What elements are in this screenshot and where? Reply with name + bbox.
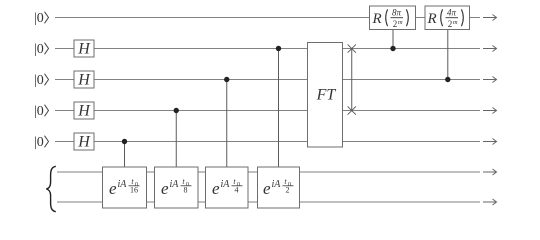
ket |0> q3	[34, 73, 49, 88]
svg-text:H: H	[77, 72, 91, 89]
control wire U2 to q4	[175, 111, 177, 169]
wire b2	[57, 201, 480, 203]
svg-text:|0: |0	[34, 135, 44, 150]
arrows	[483, 15, 497, 206]
svg-text:H: H	[77, 103, 91, 120]
U1 box	[103, 167, 147, 208]
brace	[46, 166, 56, 211]
svg-text:iA: iA	[221, 179, 231, 190]
arrow q3	[483, 79, 496, 81]
svg-text:e: e	[161, 179, 169, 198]
control dot R1	[390, 46, 395, 51]
U4 box	[258, 167, 300, 208]
H gate box q4	[74, 102, 94, 119]
R2 box	[425, 6, 470, 30]
svg-text:FT: FT	[316, 87, 337, 104]
svg-text:8: 8	[184, 186, 188, 195]
svg-text:2: 2	[286, 186, 290, 195]
arrow b1	[483, 171, 496, 173]
swap cross q4	[348, 106, 356, 114]
ket |0> q1	[34, 11, 49, 26]
svg-text:iA: iA	[272, 179, 282, 190]
wire q4	[55, 110, 480, 112]
U2 box	[155, 167, 199, 208]
label U1 e^iAt0/16	[109, 177, 140, 198]
wire q5	[55, 141, 480, 143]
ket |0> q4	[34, 104, 49, 119]
control dot q2	[276, 46, 281, 51]
ket |0> q5	[34, 135, 49, 150]
H gate box q3	[74, 71, 94, 88]
arrow q1	[483, 17, 496, 19]
svg-text:4: 4	[235, 186, 239, 195]
control dot R2	[445, 77, 450, 82]
svg-text:m: m	[453, 19, 458, 26]
svg-text:e: e	[109, 179, 117, 198]
svg-text:H: H	[77, 134, 91, 151]
svg-text:iA: iA	[170, 179, 180, 190]
control wire R1 to q2	[392, 29, 394, 49]
svg-text:2: 2	[393, 19, 398, 29]
svg-text:2: 2	[448, 19, 453, 29]
control wire U4 to q2	[278, 49, 280, 169]
svg-text:R: R	[427, 11, 437, 27]
svg-text:|0: |0	[34, 42, 44, 57]
arrow q4	[483, 110, 496, 112]
wire q1	[55, 17, 480, 19]
label U3 e^iAt0/4	[212, 177, 243, 198]
svg-text:e: e	[212, 179, 220, 198]
H gate box q2	[74, 40, 94, 57]
svg-text:|0: |0	[34, 11, 44, 26]
FT box	[308, 43, 343, 148]
svg-text:iA: iA	[118, 179, 128, 190]
svg-text:|0: |0	[34, 73, 44, 88]
control dot q3	[224, 77, 229, 82]
R1 box	[370, 6, 416, 30]
svg-text:m: m	[398, 19, 403, 26]
control wire U3 to q3	[226, 80, 228, 169]
control wire R2 to q3	[447, 29, 449, 80]
wire q3	[55, 79, 480, 81]
swap wire	[351, 49, 353, 111]
U3 box	[206, 167, 249, 208]
swap cross q2	[348, 44, 356, 52]
svg-text:e: e	[263, 179, 271, 198]
arrow q5	[483, 141, 496, 143]
svg-text:R: R	[372, 11, 382, 27]
svg-text:16: 16	[130, 186, 138, 195]
svg-text:H: H	[77, 41, 91, 58]
label R1 R(8pi/2^m)	[372, 8, 409, 30]
wire b1	[57, 171, 480, 173]
wire q2	[55, 48, 480, 50]
control wire U1 to q5	[124, 142, 126, 169]
label U2 e^iAt0/8	[161, 177, 192, 198]
H gate box q5	[74, 133, 94, 150]
ket |0> q2	[34, 42, 49, 57]
arrow b2	[483, 201, 496, 203]
control dot q4	[174, 108, 179, 113]
label R2 R(4pi/2^m)	[427, 8, 464, 30]
svg-text:8π: 8π	[392, 8, 402, 18]
svg-text:4π: 4π	[447, 8, 457, 18]
label U4 e^iAt0/2	[263, 177, 294, 198]
arrow q2	[483, 48, 496, 50]
svg-text:|0: |0	[34, 104, 44, 119]
control dot q5	[122, 139, 127, 144]
